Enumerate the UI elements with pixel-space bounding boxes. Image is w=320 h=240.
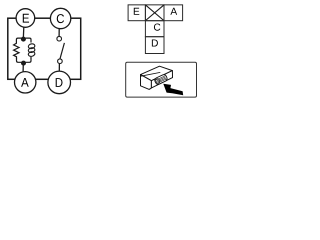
wire C to switch — [58, 29, 60, 36]
connector pins — [156, 76, 166, 83]
wire coil bottom lead — [30, 57, 32, 59]
wire bottom junction to A — [22, 64, 24, 72]
carton left face — [141, 75, 152, 90]
switch bottom contact — [58, 59, 63, 64]
table cell E — [128, 5, 145, 21]
node top junction dot — [21, 37, 26, 42]
carton flap seam — [141, 72, 161, 76]
terminal C — [50, 8, 70, 28]
wire switch to D — [58, 64, 60, 71]
resistor R zigzag — [14, 42, 19, 59]
carton right face — [151, 71, 172, 88]
table cell X crossed — [145, 5, 164, 21]
connector socket outline — [154, 74, 168, 85]
table cell A — [164, 5, 183, 21]
table cell C — [145, 21, 164, 37]
switch lever — [60, 43, 64, 59]
icon frame — [126, 62, 197, 97]
arrow pointer — [163, 84, 183, 95]
wire top junction bar — [16, 38, 31, 42]
inductor L coil — [28, 43, 36, 57]
wire outer loop — [8, 18, 81, 79]
table cell D — [145, 37, 164, 54]
terminal D — [48, 71, 71, 94]
switch top contact — [57, 36, 62, 41]
wire E to top junction — [22, 27, 24, 37]
carton top face — [141, 66, 173, 81]
node bottom junction dot — [21, 61, 26, 66]
wire bottom junction bar — [17, 58, 32, 62]
terminal A — [15, 72, 36, 93]
terminal E — [16, 9, 35, 28]
